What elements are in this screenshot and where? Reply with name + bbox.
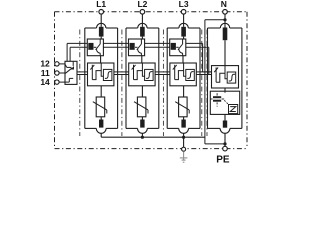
svg-text:L2: L2: [137, 0, 147, 9]
svg-text:PE: PE: [216, 155, 230, 164]
svg-text:14: 14: [40, 77, 50, 87]
svg-text:L3: L3: [179, 0, 189, 9]
svg-text:N: N: [221, 0, 227, 9]
svg-text:L1: L1: [96, 0, 106, 9]
